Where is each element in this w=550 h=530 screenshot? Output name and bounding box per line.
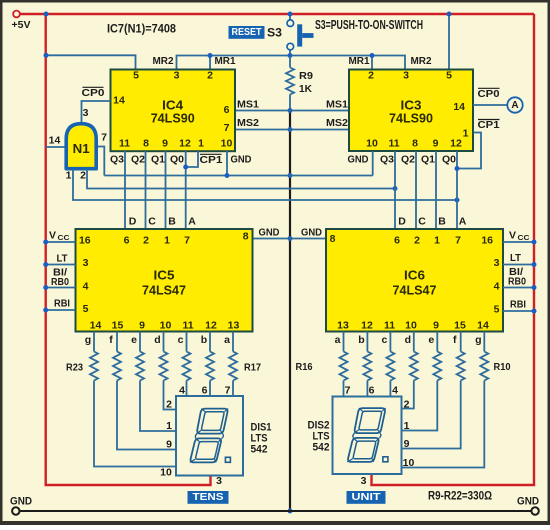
node S3 top rail bbox=[288, 12, 293, 17]
svg-text:Q0: Q0 bbox=[442, 154, 456, 166]
resistor R13 segment d UNIT bbox=[402, 332, 418, 409]
labels IC5 DCBA bbox=[129, 216, 197, 228]
svg-text:3: 3 bbox=[83, 107, 89, 119]
node bus pin8 ground link bbox=[288, 236, 293, 241]
svg-text:UNIT: UNIT bbox=[352, 492, 382, 503]
wire ground bottom rail bbox=[20, 510, 531, 512]
node reset rail IC3 MR1 bbox=[370, 53, 375, 58]
label R16 bbox=[296, 361, 313, 373]
svg-text:MR1: MR1 bbox=[349, 55, 370, 67]
and gate N1 bbox=[66, 124, 96, 169]
label UNIT bbox=[347, 491, 386, 504]
svg-text:5: 5 bbox=[83, 303, 89, 315]
svg-text:9: 9 bbox=[433, 320, 439, 332]
svg-text:1: 1 bbox=[164, 235, 170, 247]
resistor R15 segment b UNIT bbox=[358, 332, 371, 397]
svg-text:b: b bbox=[358, 334, 364, 346]
svg-text:14: 14 bbox=[49, 135, 61, 147]
svg-text:11: 11 bbox=[388, 138, 399, 150]
svg-text:8: 8 bbox=[330, 233, 336, 245]
node IC3 Q0 tap bbox=[455, 198, 460, 203]
svg-text:14: 14 bbox=[113, 95, 125, 107]
svg-text:f: f bbox=[109, 334, 113, 346]
svg-text:MS1: MS1 bbox=[237, 99, 259, 111]
svg-text:2: 2 bbox=[80, 170, 86, 182]
op IC4 74LS90 bbox=[111, 70, 236, 152]
svg-text:9: 9 bbox=[404, 438, 410, 450]
svg-text:B: B bbox=[168, 216, 176, 228]
svg-text:TENS: TENS bbox=[193, 492, 224, 503]
node +5V top left corner bbox=[44, 12, 49, 17]
svg-text:7: 7 bbox=[184, 235, 190, 247]
resistor R22 segment f TENS bbox=[109, 332, 176, 450]
svg-text:R9: R9 bbox=[299, 70, 313, 82]
svg-text:MS2: MS2 bbox=[237, 117, 259, 129]
resistor R12 segment e UNIT bbox=[402, 332, 442, 431]
svg-text:7: 7 bbox=[455, 235, 461, 247]
resistor R19 segment c TENS bbox=[178, 332, 191, 397]
svg-text:74LS90: 74LS90 bbox=[389, 110, 433, 125]
svg-text:GND: GND bbox=[10, 496, 32, 508]
label S3 bbox=[267, 26, 282, 40]
svg-text:g: g bbox=[85, 334, 91, 346]
wire IC4 GND drop bbox=[226, 151, 228, 176]
wire +5V right rail to DIS2 pin 3 bbox=[372, 14, 535, 485]
wire IC3 CP1 jog bbox=[457, 133, 481, 169]
svg-text:LT: LT bbox=[510, 252, 522, 264]
node +5V IC3 pin 5 bbox=[447, 12, 452, 17]
labels IC4 MR2 MR1 bbox=[153, 55, 236, 67]
svg-text:C: C bbox=[418, 216, 426, 228]
svg-text:IC6: IC6 bbox=[404, 268, 425, 283]
svg-text:MR2: MR2 bbox=[153, 55, 174, 67]
resistor R18 segment b TENS bbox=[201, 332, 214, 397]
node IC4 GND rail bbox=[225, 173, 230, 178]
svg-text:10: 10 bbox=[405, 320, 417, 332]
wire IC5 Vcc pin16 bbox=[43, 230, 75, 245]
label IC7(N1)=7408 bbox=[107, 22, 176, 36]
svg-text:D: D bbox=[398, 216, 406, 228]
ground terminal right bbox=[517, 496, 539, 515]
svg-text:GND: GND bbox=[301, 227, 322, 239]
node IC3 Q3 tap bbox=[393, 186, 398, 191]
svg-text:Q3: Q3 bbox=[380, 154, 394, 166]
svg-text:A: A bbox=[188, 216, 196, 228]
wire MS1 bbox=[235, 110, 349, 112]
svg-text:2: 2 bbox=[368, 70, 374, 82]
svg-text:9: 9 bbox=[433, 138, 439, 150]
svg-text:16: 16 bbox=[481, 235, 493, 247]
svg-text:CP1: CP1 bbox=[200, 154, 223, 166]
svg-text:S3: S3 bbox=[267, 26, 282, 40]
svg-text:74LS47: 74LS47 bbox=[393, 283, 437, 298]
ground terminal left bbox=[10, 496, 32, 515]
wire +5V to IC4 pin 5 bbox=[46, 55, 136, 69]
svg-text:5: 5 bbox=[494, 304, 500, 316]
svg-text:14: 14 bbox=[453, 101, 465, 113]
svg-text:N1: N1 bbox=[73, 141, 90, 156]
svg-text:12: 12 bbox=[179, 138, 191, 150]
wire reset rail MR1 MR2 bbox=[177, 56, 406, 70]
wire IC3 Q0 to IC6 bbox=[442, 151, 457, 229]
svg-text:6: 6 bbox=[124, 235, 130, 247]
svg-text:GND: GND bbox=[348, 154, 369, 166]
svg-text:GND: GND bbox=[259, 227, 280, 239]
op IC5 74LS47 bbox=[76, 229, 253, 332]
node S3 reset rail bbox=[288, 53, 293, 58]
labels IC6 DCBA bbox=[398, 216, 467, 228]
svg-text:12: 12 bbox=[361, 320, 373, 332]
svg-text:a: a bbox=[335, 334, 341, 346]
node reset rail IC4 MR1 bbox=[208, 53, 213, 58]
svg-text:10: 10 bbox=[403, 457, 415, 469]
svg-text:RB0: RB0 bbox=[51, 277, 69, 288]
svg-text:V: V bbox=[509, 230, 516, 242]
svg-text:a: a bbox=[224, 334, 230, 346]
svg-text:GND: GND bbox=[517, 496, 539, 508]
wire IC3 Q2 to IC6 bbox=[401, 151, 416, 229]
labels MS1 bbox=[237, 99, 348, 111]
wire IC4 Q3 to IC5 bbox=[110, 151, 125, 229]
label CP1 IC4 bbox=[200, 154, 223, 166]
svg-text:7: 7 bbox=[224, 122, 230, 134]
svg-text:10: 10 bbox=[221, 138, 233, 150]
svg-text:5: 5 bbox=[133, 70, 139, 82]
svg-text:3: 3 bbox=[216, 475, 222, 487]
svg-text:7: 7 bbox=[345, 385, 351, 397]
svg-text:MR2: MR2 bbox=[411, 55, 432, 67]
svg-text:R17: R17 bbox=[244, 362, 261, 374]
wire IC6 Vcc pin16 bbox=[503, 230, 537, 245]
wire IC3 CP0 to connector A bbox=[473, 104, 507, 106]
svg-text:1: 1 bbox=[66, 170, 72, 182]
svg-text:13: 13 bbox=[228, 320, 240, 332]
svg-text:3: 3 bbox=[403, 70, 409, 82]
svg-text:R10: R10 bbox=[494, 361, 511, 373]
labels IC3 MR1 MR2 bbox=[349, 55, 432, 67]
svg-text:d: d bbox=[405, 334, 411, 346]
node bus bottom ground bbox=[288, 509, 293, 514]
svg-text:1: 1 bbox=[198, 138, 204, 150]
svg-text:f: f bbox=[453, 334, 457, 346]
wire IC5 BI/RB0 pin4 bbox=[43, 268, 75, 291]
svg-text:Q1: Q1 bbox=[421, 154, 435, 166]
op IC3 74LS90 bbox=[349, 70, 473, 152]
svg-text:6: 6 bbox=[202, 385, 208, 397]
wire IC3 Q3 to IC6 bbox=[380, 151, 395, 229]
svg-text:14: 14 bbox=[477, 320, 489, 332]
svg-text:1: 1 bbox=[166, 420, 172, 432]
svg-text:3: 3 bbox=[361, 475, 367, 487]
svg-text:V: V bbox=[49, 230, 56, 242]
svg-text:542: 542 bbox=[313, 442, 330, 454]
svg-text:8: 8 bbox=[143, 138, 149, 150]
svg-text:14: 14 bbox=[90, 320, 102, 332]
svg-text:c: c bbox=[381, 334, 387, 346]
display DIS1 LTS 542 bbox=[160, 385, 271, 488]
+5V terminal bbox=[12, 11, 31, 31]
node IC3 Q0 CP1 bbox=[455, 166, 460, 171]
svg-text:MS2: MS2 bbox=[326, 117, 348, 129]
label R17 bbox=[244, 362, 261, 374]
resistor R16 segment a UNIT bbox=[335, 332, 348, 397]
resistor R11 segment f UNIT bbox=[402, 332, 465, 449]
svg-text:11: 11 bbox=[119, 138, 130, 150]
wire N1 pin 2 to IC3 Q3 bbox=[87, 169, 395, 189]
label CP0 IC3 bbox=[478, 88, 500, 100]
svg-text:4: 4 bbox=[83, 281, 89, 293]
svg-text:10: 10 bbox=[160, 467, 172, 479]
wire IC6 RBI pin5 bbox=[503, 299, 537, 314]
switch S3 push-to-on bbox=[287, 14, 314, 56]
label GND IC4 bbox=[231, 154, 252, 166]
svg-text:15: 15 bbox=[454, 320, 466, 332]
wire +5V left rail to DIS1 pin 3 bbox=[46, 14, 211, 485]
svg-text:11: 11 bbox=[384, 320, 395, 332]
svg-text:Q2: Q2 bbox=[401, 154, 415, 166]
svg-text:2: 2 bbox=[207, 70, 213, 82]
svg-text:LT: LT bbox=[57, 253, 69, 265]
svg-text:1: 1 bbox=[404, 420, 410, 432]
node +5V left rail junction bbox=[44, 53, 49, 58]
labels MS2 bbox=[237, 117, 348, 129]
resistor R20 segment d TENS bbox=[154, 332, 176, 410]
svg-text:Q1: Q1 bbox=[151, 154, 165, 166]
svg-text:11: 11 bbox=[182, 320, 193, 332]
svg-text:MR1: MR1 bbox=[215, 55, 236, 67]
wire IC5 RBI pin5 bbox=[43, 298, 75, 313]
svg-text:4: 4 bbox=[179, 385, 185, 397]
svg-text:2: 2 bbox=[166, 399, 172, 411]
label GND IC3 bbox=[348, 154, 369, 166]
svg-text:2: 2 bbox=[143, 235, 149, 247]
svg-text:IC5: IC5 bbox=[154, 268, 175, 283]
svg-text:542: 542 bbox=[251, 444, 268, 456]
label R23 bbox=[66, 362, 83, 374]
svg-text:RBI: RBI bbox=[510, 299, 526, 311]
svg-text:Q2: Q2 bbox=[131, 154, 145, 166]
wire IC4 CP1 jog bbox=[186, 151, 198, 167]
svg-text:CC: CC bbox=[518, 233, 531, 242]
svg-text:b: b bbox=[201, 334, 207, 346]
svg-text:RBI: RBI bbox=[54, 298, 70, 310]
svg-text:R23: R23 bbox=[66, 362, 83, 374]
svg-text:9: 9 bbox=[162, 138, 168, 150]
wire IC3 Q1 to IC6 bbox=[421, 151, 436, 229]
svg-text:+5V: +5V bbox=[12, 19, 31, 31]
svg-text:7: 7 bbox=[225, 385, 231, 397]
svg-text:6: 6 bbox=[369, 385, 375, 397]
svg-text:3: 3 bbox=[174, 70, 180, 82]
wire IC3 GND drop bbox=[372, 151, 374, 176]
svg-text:IC7(N1)=7408: IC7(N1)=7408 bbox=[107, 22, 176, 36]
labels pin8 GND bbox=[259, 227, 323, 239]
labels N1 pins 1 2 bbox=[66, 170, 87, 182]
node bus MS2 bbox=[288, 127, 293, 132]
svg-text:CP0: CP0 bbox=[82, 87, 105, 99]
svg-text:74LS90: 74LS90 bbox=[151, 110, 195, 125]
svg-text:8: 8 bbox=[243, 231, 249, 243]
wire N1 output to IC4 CP0 bbox=[82, 101, 111, 122]
svg-text:A: A bbox=[459, 216, 467, 228]
wire N1 pin 14 from +5V rail bbox=[46, 135, 65, 148]
svg-text:D: D bbox=[129, 216, 137, 228]
svg-text:7: 7 bbox=[101, 132, 107, 144]
svg-text:3: 3 bbox=[494, 257, 500, 269]
svg-text:1: 1 bbox=[463, 128, 469, 140]
svg-text:4: 4 bbox=[392, 385, 398, 397]
svg-text:RESET: RESET bbox=[232, 27, 263, 38]
label CP1 IC3 bbox=[478, 119, 500, 131]
svg-text:74LS47: 74LS47 bbox=[142, 283, 186, 298]
wire N1 pin 1 to IC3 Q0 bbox=[73, 169, 457, 200]
svg-text:R16: R16 bbox=[296, 361, 313, 373]
node bus ground rail bbox=[288, 173, 293, 178]
svg-text:Q3: Q3 bbox=[110, 154, 124, 166]
label R9-R22=330ohm bbox=[428, 491, 492, 503]
svg-text:CC: CC bbox=[58, 233, 71, 242]
display DIS2 LTS 542 bbox=[308, 385, 415, 488]
svg-text:12: 12 bbox=[205, 320, 217, 332]
svg-text:5: 5 bbox=[446, 70, 452, 82]
label CP0 IC4 bbox=[82, 87, 105, 119]
connector A bbox=[507, 97, 522, 112]
resistor R17 segment a TENS bbox=[224, 332, 237, 397]
wire +5V top rail bbox=[20, 13, 534, 15]
svg-text:Q0: Q0 bbox=[170, 154, 184, 166]
wire MS2 bbox=[235, 129, 349, 131]
resistor R10 segment g UNIT bbox=[402, 332, 489, 468]
svg-text:g: g bbox=[475, 334, 481, 346]
resistor R14 segment c UNIT bbox=[381, 332, 394, 397]
svg-text:10: 10 bbox=[160, 320, 172, 332]
label RESET bbox=[229, 26, 265, 39]
svg-text:4: 4 bbox=[494, 281, 500, 293]
svg-text:d: d bbox=[154, 334, 160, 346]
svg-text:15: 15 bbox=[112, 320, 124, 332]
svg-text:12: 12 bbox=[450, 138, 462, 150]
svg-text:2: 2 bbox=[404, 399, 410, 411]
svg-text:6: 6 bbox=[394, 235, 400, 247]
svg-text:9: 9 bbox=[139, 320, 145, 332]
op IC6 74LS47 bbox=[326, 229, 503, 332]
node IC4 Q0 CP1 bbox=[183, 165, 188, 170]
wire IC4 Q2 to IC5 bbox=[131, 151, 146, 229]
resistor R23 segment g TENS bbox=[85, 332, 176, 467]
resistor R9 1K bbox=[286, 56, 313, 111]
wire IC4 Q0 to IC5 bbox=[170, 151, 186, 229]
svg-text:3: 3 bbox=[83, 257, 89, 269]
resistor R21 segment e TENS bbox=[131, 332, 176, 432]
svg-text:1K: 1K bbox=[299, 83, 312, 95]
svg-text:CP0: CP0 bbox=[478, 88, 500, 100]
wire ground bus vertical bbox=[289, 111, 291, 512]
svg-text:13: 13 bbox=[337, 320, 349, 332]
svg-text:S3=PUSH-TO-ON-SWITCH: S3=PUSH-TO-ON-SWITCH bbox=[315, 18, 423, 32]
svg-text:CP1: CP1 bbox=[478, 119, 500, 131]
wire IC5 pin8 to IC6 pin8 GND bbox=[253, 238, 327, 240]
svg-text:16: 16 bbox=[79, 235, 91, 247]
svg-text:RB0: RB0 bbox=[508, 277, 526, 288]
svg-text:e: e bbox=[131, 334, 137, 346]
svg-text:B: B bbox=[438, 216, 446, 228]
svg-text:GND: GND bbox=[231, 154, 252, 166]
svg-text:A: A bbox=[511, 100, 518, 111]
label S3=PUSH-TO-ON-SWITCH bbox=[315, 18, 423, 32]
wire ground rail bbox=[104, 175, 372, 177]
svg-text:c: c bbox=[178, 334, 184, 346]
svg-text:2: 2 bbox=[414, 235, 420, 247]
wire IC4 Q1 to IC5 bbox=[151, 151, 166, 229]
svg-text:9: 9 bbox=[166, 439, 172, 451]
svg-text:10: 10 bbox=[366, 138, 378, 150]
label TENS bbox=[188, 491, 229, 504]
svg-text:e: e bbox=[428, 334, 434, 346]
label R10 bbox=[494, 361, 511, 373]
svg-text:8: 8 bbox=[412, 138, 418, 150]
wire N1 pin 7 to ground rail bbox=[98, 132, 107, 176]
svg-text:MS1: MS1 bbox=[326, 99, 348, 111]
wire IC6 LT pin3 bbox=[503, 252, 537, 267]
svg-text:R9-R22=330Ω: R9-R22=330Ω bbox=[428, 491, 492, 503]
svg-text:C: C bbox=[148, 216, 156, 228]
svg-text:1: 1 bbox=[434, 235, 440, 247]
wire IC6 BI/RB0 pin4 bbox=[503, 267, 537, 290]
svg-text:6: 6 bbox=[224, 104, 230, 116]
wire IC5 LT pin3 bbox=[43, 253, 75, 268]
node bus MS1 bbox=[288, 108, 293, 113]
wire +5V to IC3 pin 5 bbox=[448, 14, 450, 70]
